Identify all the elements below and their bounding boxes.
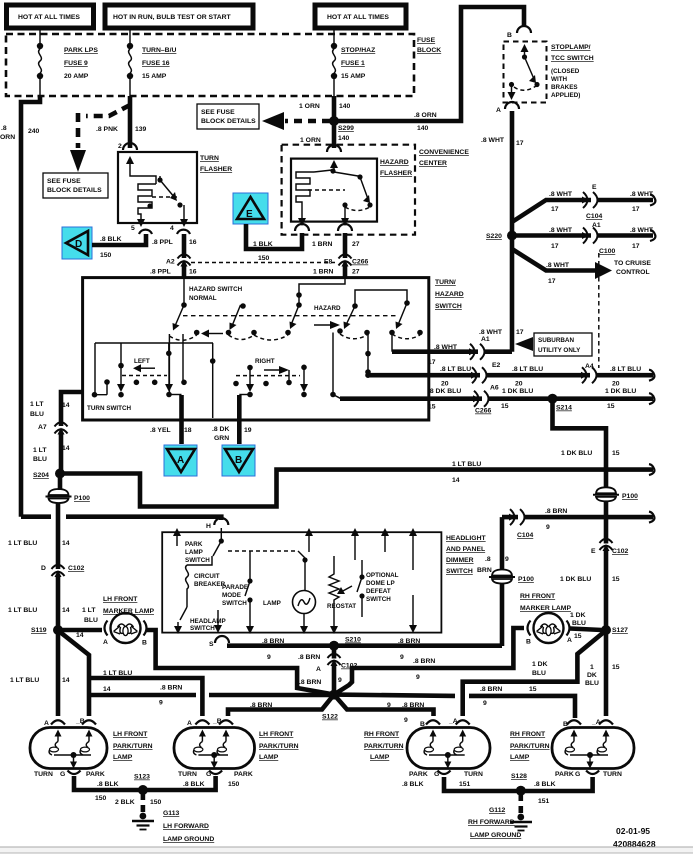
svg-text:1 DK BLU: 1 DK BLU <box>605 388 636 395</box>
svg-text:.8 BLK: .8 BLK <box>97 781 119 788</box>
svg-text:E: E <box>592 184 597 191</box>
svg-text:CIRCUIT: CIRCUIT <box>194 573 220 580</box>
svg-text:15 AMP: 15 AMP <box>341 73 366 80</box>
svg-text:1: 1 <box>590 664 594 671</box>
svg-text:S122: S122 <box>322 714 338 721</box>
svg-text:S128: S128 <box>511 773 527 780</box>
svg-text:PARK LPS: PARK LPS <box>64 47 98 54</box>
svg-text:UTILITY ONLY: UTILITY ONLY <box>538 347 581 354</box>
svg-text:FUSE 1: FUSE 1 <box>341 60 365 67</box>
svg-text:PARK: PARK <box>555 771 574 778</box>
svg-text:B: B <box>563 721 568 728</box>
svg-text:TURN SWITCH: TURN SWITCH <box>87 405 132 412</box>
svg-text:CONTROL: CONTROL <box>616 269 650 276</box>
svg-text:LAMP: LAMP <box>263 600 281 607</box>
svg-text:LAMP: LAMP <box>510 754 530 761</box>
svg-text:.8 BRN: .8 BRN <box>298 654 320 661</box>
svg-text:1 LT: 1 LT <box>30 401 44 408</box>
svg-text:1 ORN: 1 ORN <box>299 103 320 110</box>
svg-text:A7: A7 <box>38 424 47 431</box>
svg-text:15: 15 <box>612 450 620 457</box>
svg-text:_A: _A <box>591 719 601 726</box>
svg-text:P100: P100 <box>74 495 90 502</box>
svg-text:.8 BRN: .8 BRN <box>398 638 420 645</box>
svg-text:BREAKER: BREAKER <box>194 581 226 588</box>
svg-text:.8 WHT: .8 WHT <box>479 329 503 336</box>
svg-text:E: E <box>246 209 253 220</box>
svg-text:1 DK BLU: 1 DK BLU <box>561 450 592 457</box>
svg-text:15: 15 <box>612 664 620 671</box>
svg-text:17: 17 <box>428 359 436 366</box>
svg-text:.8 WHT: .8 WHT <box>481 137 505 144</box>
svg-text:LAMP: LAMP <box>113 754 133 761</box>
svg-text:1 LT: 1 LT <box>82 607 96 614</box>
svg-text:TURN/: TURN/ <box>435 279 456 286</box>
svg-text:1 DK BLU: 1 DK BLU <box>560 576 591 583</box>
svg-text:BLU: BLU <box>33 456 47 463</box>
svg-text:SWITCH: SWITCH <box>222 600 247 607</box>
svg-text:FUSE 9: FUSE 9 <box>64 60 88 67</box>
svg-text:140: 140 <box>417 125 429 132</box>
svg-text:A1: A1 <box>481 336 490 343</box>
svg-text:9: 9 <box>400 654 404 661</box>
svg-text:2 BLK: 2 BLK <box>115 799 135 806</box>
svg-text:.8 LT BLU: .8 LT BLU <box>440 366 471 373</box>
svg-text:27: 27 <box>352 241 360 248</box>
svg-text:1 BRN: 1 BRN <box>313 269 333 276</box>
svg-text:.8 PPL: .8 PPL <box>152 239 173 246</box>
svg-text:02-01-95: 02-01-95 <box>616 826 650 836</box>
svg-text:17: 17 <box>551 206 559 213</box>
svg-text:LH FRONT: LH FRONT <box>113 731 148 738</box>
svg-text:17: 17 <box>632 206 640 213</box>
svg-text:SEE FUSE: SEE FUSE <box>201 109 235 116</box>
svg-text:14: 14 <box>76 632 84 639</box>
svg-text:BRAKES: BRAKES <box>551 84 578 91</box>
svg-text:1 ORN: 1 ORN <box>300 137 321 144</box>
svg-text:20: 20 <box>515 381 523 388</box>
svg-text:TURN: TURN <box>603 771 622 778</box>
svg-text:RH FRONT: RH FRONT <box>510 731 546 738</box>
svg-text:TCC SWITCH: TCC SWITCH <box>551 55 594 62</box>
svg-text:9: 9 <box>505 556 509 563</box>
svg-text:SWITCH: SWITCH <box>185 557 210 564</box>
svg-text:150: 150 <box>258 255 270 262</box>
svg-text:LH FRONT: LH FRONT <box>259 731 294 738</box>
svg-text:G: G <box>60 771 65 778</box>
svg-text:C266: C266 <box>475 408 491 415</box>
svg-text:DK: DK <box>587 672 597 679</box>
svg-text:9: 9 <box>546 524 550 531</box>
svg-text:15: 15 <box>607 403 615 410</box>
svg-text:BLOCK: BLOCK <box>417 47 441 54</box>
svg-text:17: 17 <box>632 243 640 250</box>
svg-text:HAZARD SWITCH: HAZARD SWITCH <box>189 286 243 293</box>
svg-text:.8: .8 <box>485 556 491 563</box>
svg-text:14: 14 <box>62 402 70 409</box>
svg-text:.8 WHT: .8 WHT <box>434 344 458 351</box>
svg-text:APPLIED): APPLIED) <box>551 92 580 99</box>
svg-text:A2: A2 <box>166 259 175 266</box>
svg-text:1 LT BLU: 1 LT BLU <box>8 607 37 614</box>
svg-text:27: 27 <box>352 269 360 276</box>
svg-text:TURN: TURN <box>34 771 53 778</box>
svg-text:14: 14 <box>103 686 111 693</box>
svg-text:STOP/HAZ: STOP/HAZ <box>341 47 375 54</box>
svg-text:A1: A1 <box>592 222 601 229</box>
svg-text:BLU: BLU <box>84 617 98 624</box>
svg-text:.8 BRN: .8 BRN <box>262 638 284 645</box>
svg-text:A4: A4 <box>585 363 594 370</box>
svg-text:BLU: BLU <box>532 670 546 677</box>
svg-text:A: A <box>187 720 192 727</box>
svg-text:1 BRN: 1 BRN <box>312 241 332 248</box>
svg-text:.8 BRN: .8 BRN <box>160 685 182 692</box>
svg-text:14: 14 <box>452 477 460 484</box>
svg-text:S127: S127 <box>612 627 628 634</box>
svg-text:.8 BLK: .8 BLK <box>183 781 205 788</box>
svg-text:HOT AT ALL TIMES: HOT AT ALL TIMES <box>327 14 389 21</box>
svg-text:P100: P100 <box>622 493 638 500</box>
svg-text:E8: E8 <box>324 259 333 266</box>
svg-text:PARK/TURN: PARK/TURN <box>259 743 299 750</box>
svg-text:G: G <box>434 771 439 778</box>
svg-text:PARK/TURN: PARK/TURN <box>113 743 153 750</box>
svg-text:A: A <box>177 455 184 466</box>
svg-text:14: 14 <box>62 607 70 614</box>
svg-text:ORN: ORN <box>0 134 15 141</box>
svg-text:CENTER: CENTER <box>419 160 447 167</box>
svg-text:MARKER LAMP: MARKER LAMP <box>103 608 154 615</box>
svg-text:P100: P100 <box>518 576 534 583</box>
svg-text:9: 9 <box>338 677 342 684</box>
svg-text:LAMP: LAMP <box>185 549 203 556</box>
svg-text:1 DK: 1 DK <box>532 661 548 668</box>
svg-text:1 BLK: 1 BLK <box>253 241 273 248</box>
svg-text:D: D <box>75 239 82 250</box>
svg-text:140: 140 <box>339 103 351 110</box>
svg-text:15 AMP: 15 AMP <box>142 73 167 80</box>
svg-text:TURN: TURN <box>178 771 197 778</box>
svg-text:BLOCK DETAILS: BLOCK DETAILS <box>201 118 256 125</box>
svg-text:240: 240 <box>28 128 40 135</box>
svg-text:DIMMER: DIMMER <box>446 557 474 564</box>
svg-text:A: A <box>316 666 321 673</box>
svg-text:.8 PPL: .8 PPL <box>150 269 171 276</box>
svg-text:9: 9 <box>483 700 487 707</box>
svg-text:HEADLAMP: HEADLAMP <box>190 618 226 625</box>
svg-text:S: S <box>209 641 214 648</box>
svg-text:BRN: BRN <box>477 567 492 574</box>
svg-text:RIGHT: RIGHT <box>255 358 275 365</box>
svg-text:.8 BRN: .8 BRN <box>402 702 424 709</box>
svg-text:2: 2 <box>118 143 122 150</box>
svg-text:A: A <box>103 639 108 646</box>
svg-text:B: B <box>507 32 512 39</box>
svg-text:PARK: PARK <box>86 771 105 778</box>
svg-text:HAZARD: HAZARD <box>314 305 341 312</box>
svg-text:15: 15 <box>612 576 620 583</box>
svg-text:LAMP GROUND: LAMP GROUND <box>163 836 214 843</box>
svg-text:SWITCH: SWITCH <box>435 303 462 310</box>
svg-text:18: 18 <box>184 427 192 434</box>
svg-text:LAMP: LAMP <box>370 754 390 761</box>
svg-text:S299: S299 <box>338 125 354 132</box>
svg-text:151: 151 <box>538 798 550 805</box>
svg-text:G: G <box>575 771 580 778</box>
svg-text:FLASHER: FLASHER <box>200 166 232 173</box>
svg-text:.8: .8 <box>1 125 7 132</box>
svg-text:1 DK BLU: 1 DK BLU <box>502 388 533 395</box>
svg-text:16: 16 <box>189 239 197 246</box>
svg-text:17: 17 <box>551 243 559 250</box>
svg-text:.8 WHT: .8 WHT <box>549 191 573 198</box>
svg-text:B: B <box>235 455 242 466</box>
svg-text:LAMP: LAMP <box>259 754 279 761</box>
svg-text:G112: G112 <box>489 807 505 814</box>
svg-text:TURN: TURN <box>200 155 219 162</box>
svg-text:SWITCH: SWITCH <box>446 568 473 575</box>
svg-text:MODE: MODE <box>222 592 241 599</box>
svg-text:BLOCK DETAILS: BLOCK DETAILS <box>47 187 102 194</box>
svg-text:B: B <box>526 639 531 646</box>
svg-text:16: 16 <box>189 269 197 276</box>
svg-text:OPTIONAL: OPTIONAL <box>366 572 399 579</box>
svg-text:S123: S123 <box>134 774 150 781</box>
svg-text:FLASHER: FLASHER <box>380 170 412 177</box>
svg-text:REOSTAT: REOSTAT <box>327 603 356 610</box>
svg-text:C102: C102 <box>612 548 628 555</box>
svg-text:.8 DK BLU: .8 DK BLU <box>428 388 461 395</box>
svg-text:.8 BRN: .8 BRN <box>250 702 272 709</box>
svg-text:HAZARD: HAZARD <box>380 159 409 166</box>
svg-text:BLU: BLU <box>30 411 44 418</box>
svg-text:FUSE: FUSE <box>417 37 436 44</box>
svg-text:9: 9 <box>267 654 271 661</box>
svg-text:.8 BRN: .8 BRN <box>299 679 321 686</box>
svg-text:150: 150 <box>228 781 240 788</box>
svg-text:_A: _A <box>448 718 458 725</box>
svg-text:TURN–B/U: TURN–B/U <box>142 47 176 54</box>
svg-text:14: 14 <box>62 445 70 452</box>
svg-text:SWITCH: SWITCH <box>366 596 391 603</box>
svg-text:140: 140 <box>338 135 350 142</box>
svg-text:HOT AT ALL TIMES: HOT AT ALL TIMES <box>18 14 80 21</box>
svg-text:PARADE: PARADE <box>222 584 248 591</box>
svg-text:15: 15 <box>574 633 582 640</box>
svg-text:139: 139 <box>135 126 147 133</box>
svg-text:.8 LT BLU: .8 LT BLU <box>610 366 641 373</box>
svg-text:PARK: PARK <box>185 541 203 548</box>
svg-text:STOPLAMP/: STOPLAMP/ <box>551 44 591 51</box>
svg-text:A: A <box>567 637 572 644</box>
svg-text:B: B <box>142 640 147 647</box>
svg-text:9: 9 <box>416 674 420 681</box>
svg-text:C102: C102 <box>68 565 84 572</box>
svg-text:C100: C100 <box>599 248 615 255</box>
svg-text:LH FORWARD: LH FORWARD <box>163 823 209 830</box>
svg-text:.8 PNK: .8 PNK <box>96 126 118 133</box>
svg-text:PARK: PARK <box>234 771 253 778</box>
svg-text:1 LT BLU: 1 LT BLU <box>103 670 132 677</box>
svg-text:150: 150 <box>95 795 107 802</box>
svg-text:E: E <box>591 548 596 555</box>
svg-text:19: 19 <box>244 427 252 434</box>
svg-text:HEADLIGHT: HEADLIGHT <box>446 535 486 542</box>
svg-text:150: 150 <box>100 252 112 259</box>
svg-text:C266: C266 <box>352 259 368 266</box>
svg-text:PARK/TURN: PARK/TURN <box>364 743 404 750</box>
svg-text:RH FORWARD: RH FORWARD <box>468 819 515 826</box>
svg-text:15: 15 <box>501 403 509 410</box>
svg-text:9: 9 <box>159 700 163 707</box>
svg-text:S204: S204 <box>33 472 49 479</box>
svg-text:20 AMP: 20 AMP <box>64 73 89 80</box>
svg-text:14: 14 <box>62 540 70 547</box>
svg-text:17: 17 <box>516 329 524 336</box>
svg-text:S220: S220 <box>486 233 502 240</box>
svg-text:H: H <box>206 523 211 530</box>
svg-text:SWITCH: SWITCH <box>190 625 215 632</box>
svg-text:4: 4 <box>170 225 174 232</box>
svg-text:.8 WHT: .8 WHT <box>546 262 570 269</box>
svg-text:C104: C104 <box>517 532 533 539</box>
svg-text:RH FRONT: RH FRONT <box>364 731 400 738</box>
svg-text:S214: S214 <box>556 405 572 412</box>
svg-text:.8 BRN: .8 BRN <box>480 686 502 693</box>
svg-text:.8 ORN: .8 ORN <box>414 112 437 119</box>
svg-text:1 LT: 1 LT <box>33 447 47 454</box>
svg-text:C104: C104 <box>586 213 602 220</box>
svg-text:.8 YEL: .8 YEL <box>150 427 171 434</box>
svg-text:A6: A6 <box>490 385 499 392</box>
svg-text:FUSE 16: FUSE 16 <box>142 60 170 67</box>
svg-text:.8 BLK: .8 BLK <box>534 781 556 788</box>
svg-text:BLU: BLU <box>585 680 599 687</box>
svg-text:9: 9 <box>404 717 408 724</box>
svg-text:151: 151 <box>459 781 471 788</box>
svg-text:E2: E2 <box>492 362 501 369</box>
svg-text:S210: S210 <box>345 637 361 644</box>
svg-text:D: D <box>41 565 46 572</box>
svg-text:(CLOSED: (CLOSED <box>551 68 580 75</box>
svg-text:20: 20 <box>612 381 620 388</box>
svg-text:1 LT BLU: 1 LT BLU <box>8 540 37 547</box>
svg-text:HAZARD: HAZARD <box>435 291 464 298</box>
svg-text:5: 5 <box>131 225 135 232</box>
svg-text:PARK/TURN: PARK/TURN <box>510 743 550 750</box>
svg-text:MARKER LAMP: MARKER LAMP <box>520 605 571 612</box>
svg-text:PARK: PARK <box>409 771 428 778</box>
svg-text:1 LT BLU: 1 LT BLU <box>10 677 39 684</box>
svg-text:.8 DK: .8 DK <box>212 426 229 433</box>
svg-text:G: G <box>206 771 211 778</box>
svg-text:.8 BRN: .8 BRN <box>545 508 567 515</box>
svg-text:G113: G113 <box>163 810 179 817</box>
svg-text:17: 17 <box>548 278 556 285</box>
svg-text:B: B <box>420 721 425 728</box>
svg-text:1 LT BLU: 1 LT BLU <box>452 461 481 468</box>
svg-text:.8 WHT: .8 WHT <box>549 227 573 234</box>
svg-text:BLU: BLU <box>572 620 586 627</box>
svg-text:LAMP GROUND: LAMP GROUND <box>470 832 521 839</box>
svg-text:WITH: WITH <box>551 76 568 83</box>
svg-text:20: 20 <box>441 381 449 388</box>
svg-text:TURN: TURN <box>464 771 483 778</box>
svg-text:CONVENIENCE: CONVENIENCE <box>419 149 469 156</box>
svg-text:DEFEAT: DEFEAT <box>366 588 391 595</box>
svg-text:17: 17 <box>516 140 524 147</box>
svg-text:SUBURBAN: SUBURBAN <box>538 337 574 344</box>
svg-text:HOT IN RUN, BULB TEST OR START: HOT IN RUN, BULB TEST OR START <box>113 14 232 21</box>
svg-text:150: 150 <box>150 799 162 806</box>
svg-text:A: A <box>44 720 49 727</box>
svg-text:GRN: GRN <box>214 435 229 442</box>
svg-text:TO CRUISE: TO CRUISE <box>614 260 651 267</box>
svg-text:NORMAL: NORMAL <box>189 295 217 302</box>
svg-text:.8 BRN: .8 BRN <box>413 658 435 665</box>
svg-text:9: 9 <box>387 702 391 709</box>
svg-text:AND PANEL: AND PANEL <box>446 546 485 553</box>
svg-text:1 DK: 1 DK <box>570 612 586 619</box>
svg-text:.8 BLK: .8 BLK <box>100 236 122 243</box>
svg-text:14: 14 <box>62 677 70 684</box>
svg-text:.8 LT BLU: .8 LT BLU <box>512 366 543 373</box>
svg-text:RH FRONT: RH FRONT <box>520 593 556 600</box>
svg-text:S119: S119 <box>31 627 47 634</box>
svg-text:15: 15 <box>428 404 436 411</box>
svg-text:A: A <box>496 107 501 114</box>
svg-text:.8 BLK: .8 BLK <box>402 781 424 788</box>
svg-text:SEE FUSE: SEE FUSE <box>47 178 81 185</box>
svg-text:_B: _B <box>212 718 222 725</box>
svg-text:DOME LP: DOME LP <box>366 580 395 587</box>
svg-text:_B: _B <box>75 718 85 725</box>
svg-text:15: 15 <box>529 686 537 693</box>
svg-text:LH FRONT: LH FRONT <box>103 596 138 603</box>
svg-text:LEFT: LEFT <box>134 358 150 365</box>
